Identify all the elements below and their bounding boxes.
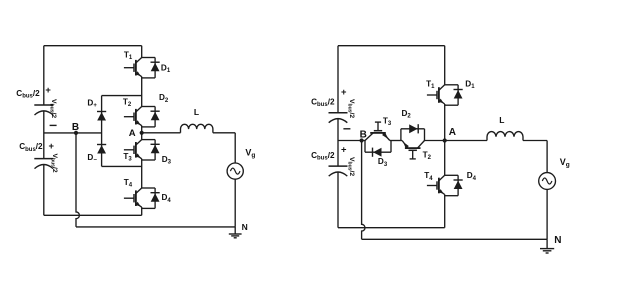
label N (right leg): [554, 235, 561, 246]
label T2 (left leg): [123, 97, 132, 108]
transistor T3 (left leg): [124, 140, 142, 160]
capacitor Cbus/2 upper (right leg): [329, 113, 348, 123]
wire: right DC rail upper segment: [337, 46, 339, 113]
wire: A to inductor (left leg): [142, 132, 181, 134]
transistor T4 (left leg): [124, 188, 142, 208]
label T2 (right leg): [423, 151, 432, 162]
wire: inductor to corner (right leg): [523, 140, 547, 142]
wire: top rail to T1 collector: [141, 46, 143, 58]
svg-text:L: L: [499, 115, 504, 125]
node A (left leg): [140, 131, 144, 135]
ground N (right leg): [540, 239, 554, 253]
inductor L (right leg): [487, 132, 523, 141]
svg-text:+: +: [48, 140, 54, 151]
wire: B to T3 (right leg): [338, 140, 365, 142]
capacitor Cbus/2 lower (left leg): [34, 159, 53, 169]
wire: left DC− bottom rail: [44, 214, 142, 216]
label T1 (left leg): [124, 51, 133, 62]
label Vbus/2 upper (right leg): [346, 99, 355, 118]
label N (left leg): [242, 222, 248, 232]
wire: right DC rail middle segment: [337, 119, 339, 166]
label L (right leg): [499, 115, 504, 125]
wire: clamp vertical: [101, 96, 103, 167]
diode D3 (left leg): [142, 140, 160, 160]
diode D1 (left leg): [142, 58, 160, 78]
wire: corner down to source (right leg): [546, 141, 548, 173]
label Vg (left leg): [245, 147, 255, 159]
label − upper cap (right leg): [343, 128, 350, 130]
label + upper cap (right leg): [341, 86, 347, 97]
transistor T2 (left leg): [124, 107, 142, 127]
label D+ clamp: [87, 98, 97, 109]
label Vbus/2 lower (right leg): [347, 157, 356, 176]
wire: T4 emitter to bottom rail (right leg): [444, 195, 446, 228]
label + lower cap (left leg): [48, 140, 54, 151]
wire: T4 emitter to bottom rail: [141, 207, 143, 215]
label D4 (left leg): [162, 193, 172, 204]
label T3 (right leg): [383, 117, 392, 128]
label Vbus/2 upper (left leg): [48, 99, 57, 118]
label Cbus/2 upper (left leg): [16, 89, 40, 100]
svg-text:L: L: [194, 107, 199, 117]
label D1 (right leg): [465, 80, 475, 91]
diode D4 (left leg): [142, 188, 160, 208]
svg-text:B: B: [360, 129, 367, 140]
label D4 (right leg): [467, 171, 477, 182]
wire: right DC− bottom rail: [338, 227, 445, 229]
label B (right leg): [360, 129, 367, 140]
svg-text:+: +: [45, 84, 51, 95]
wire: T3 to T2 (right leg): [391, 140, 401, 142]
wire: T1 emitter to T2 collector: [141, 77, 143, 107]
node B (right leg): [360, 138, 364, 142]
label A (right leg): [449, 127, 456, 138]
ground N (left leg): [229, 227, 242, 238]
transistor T4 (right leg): [427, 175, 445, 195]
label + lower cap (right leg): [341, 144, 347, 155]
label T1 (right leg): [426, 80, 435, 91]
node B (left leg): [74, 131, 78, 135]
ac source Vg (left leg): [227, 163, 243, 179]
wire: B to neutral with crossover hop (right leg): [362, 141, 365, 240]
label L (left leg): [194, 107, 199, 117]
label D2 (left leg): [159, 93, 169, 104]
diode D3 (right leg): [365, 141, 391, 157]
capacitor Cbus/2 lower (right leg): [329, 166, 348, 176]
wire: clamp top branch: [102, 95, 142, 97]
inductor L (left leg): [181, 124, 213, 132]
wire: clamp bottom branch: [102, 165, 142, 167]
label D3 (right leg): [378, 157, 388, 168]
diode D4 (right leg): [445, 175, 463, 195]
label T3 (left leg): [123, 152, 132, 163]
svg-text:+: +: [341, 86, 347, 97]
label + upper cap (left leg): [45, 84, 51, 95]
label B (left leg): [72, 122, 79, 133]
label D− clamp: [87, 153, 97, 164]
diode D2 (right leg): [401, 124, 425, 140]
svg-text:A: A: [449, 127, 456, 138]
svg-text:N: N: [554, 235, 561, 246]
wire: top rail to T1 collector (right leg): [444, 46, 446, 85]
label − upper cap (left leg): [50, 124, 57, 126]
svg-text:A: A: [129, 128, 136, 139]
wire: corner down to source (left leg): [234, 133, 236, 163]
wire: T1 emitter to node A (right leg): [444, 104, 446, 141]
transistor T3 (right leg): [365, 122, 391, 140]
wire: source to N (left leg): [234, 179, 236, 227]
transistor T1 (right leg): [427, 85, 445, 105]
wire: right DC+ top rail (right leg): [338, 45, 445, 47]
diode D2 (left leg): [142, 107, 160, 127]
diode D− clamp (left leg): [97, 145, 106, 154]
node A (right leg): [443, 138, 447, 142]
wire: node A to T4 collector (right leg): [444, 141, 446, 176]
transistor T1 (left leg): [124, 58, 142, 78]
label Cbus/2 lower (left leg): [19, 142, 43, 153]
label Vg (right leg): [560, 157, 570, 169]
wire: T2 to node A (right leg): [425, 140, 445, 142]
label T4 (right leg): [424, 171, 433, 182]
ac source Vg (right leg): [539, 173, 556, 190]
label Cbus/2 upper (right leg): [311, 98, 335, 109]
wire: neutral bottom run (left leg): [76, 226, 235, 228]
wire: left DC rail upper segment: [43, 46, 45, 105]
wire: T3 emitter to T4 collector: [141, 159, 143, 188]
label Vbus/2 lower (left leg): [50, 154, 59, 173]
wire: left DC rail lower segment: [43, 165, 45, 215]
wire: neutral bottom run (right leg): [362, 238, 547, 240]
wire: source to N (right leg): [546, 189, 548, 239]
wire: left DC rail middle segment: [43, 111, 45, 158]
wire: T2 emitter to T3 collector (through node A): [141, 126, 143, 140]
wire: inductor to corner (left leg): [213, 132, 235, 134]
diode D1 (right leg): [445, 85, 463, 105]
label A (left leg): [129, 128, 136, 139]
diode D+ clamp (left leg): [97, 112, 106, 121]
transistor T2 (right leg): [401, 141, 425, 159]
svg-text:B: B: [72, 122, 79, 133]
label Cbus/2 lower (right leg): [311, 151, 335, 162]
capacitor Cbus/2 upper (left leg): [34, 105, 53, 115]
label D2 (right leg): [402, 109, 412, 120]
wire: left DC+ top rail (left leg): [44, 45, 142, 47]
wire: B to neutral with crossover hop (left leg): [76, 133, 79, 227]
wire: right DC rail lower segment: [337, 172, 339, 227]
svg-text:+: +: [341, 144, 347, 155]
label D3 (left leg): [162, 155, 172, 166]
label D1 (left leg): [161, 64, 171, 75]
wire: A to inductor (right leg): [445, 140, 487, 142]
label T4 (left leg): [124, 178, 133, 189]
wire: B horizontal (left leg): [44, 132, 102, 134]
svg-text:N: N: [242, 222, 248, 232]
